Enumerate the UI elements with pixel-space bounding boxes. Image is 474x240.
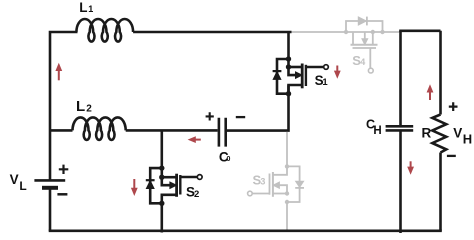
svg-text:V: V — [453, 125, 462, 140]
node S2 drain contact — [159, 175, 164, 180]
node S3 top — [285, 164, 289, 168]
voltage source VL battery — [34, 180, 65, 187]
S1 gate lead — [306, 66, 324, 69]
diode D3 symbol — [296, 181, 304, 187]
S2 drain contact — [162, 176, 177, 179]
gray section — [252, 21, 399, 231]
S4 gate lead — [369, 48, 371, 68]
diode D3 branch — [287, 166, 300, 202]
diode D4 symbol — [358, 17, 366, 25]
transistor S1 — [277, 32, 323, 94]
label C0 plus — [206, 112, 214, 120]
wire top right rail — [399, 29, 440, 32]
diode D1 symbol — [273, 56, 302, 96]
svg-text:3: 3 — [260, 177, 265, 187]
S1 body arrowhead — [296, 72, 303, 78]
S4 channel bar — [351, 44, 378, 46]
wire left rail top — [50, 32, 78, 180]
svg-text:4: 4 — [360, 57, 365, 67]
wire CH column bottom — [399, 130, 402, 233]
resistor R zigzag — [432, 115, 446, 153]
svg-text:2: 2 — [194, 189, 199, 200]
wire S1 drain from top rail — [287, 32, 290, 67]
wire S2 drain from L2 row — [161, 130, 164, 177]
svg-text:H: H — [463, 131, 472, 146]
svg-text:2: 2 — [86, 104, 92, 115]
wire L2 row — [50, 129, 73, 132]
S4 body arrowhead — [362, 39, 368, 45]
node S4 diode left — [344, 30, 348, 34]
wire R column bottom — [439, 153, 442, 231]
inductor L2 — [73, 117, 126, 140]
S3 gate circle — [248, 191, 253, 196]
svg-text:L: L — [76, 98, 85, 115]
S4 body arrow lead — [364, 32, 366, 42]
svg-text:L: L — [19, 179, 26, 193]
S2 body arrowhead — [170, 182, 177, 188]
S2 gate bar — [179, 175, 181, 195]
svg-text:0: 0 — [227, 156, 231, 163]
node S2 drain-diode — [159, 165, 164, 170]
diode D4 branch — [346, 21, 383, 32]
node S1 drain contact — [286, 64, 291, 69]
S4 source contact — [352, 32, 354, 45]
wire top rail to S1 — [133, 31, 291, 34]
capacitor C0 plates — [219, 118, 226, 147]
wire L2 to C0 left plate — [126, 129, 218, 132]
label C0 minus — [236, 116, 245, 118]
S4 drain contact — [372, 32, 374, 45]
wire left rail bottom — [49, 188, 52, 231]
svg-text:1: 1 — [88, 4, 93, 14]
node S4 drain — [371, 30, 375, 34]
S1 channel bar — [301, 64, 304, 89]
diode D2 branch — [150, 168, 162, 203]
arrow S1 down — [336, 66, 338, 72]
S2 body arrow lead — [162, 177, 173, 185]
VL short plate — [42, 186, 58, 190]
node S1 source-diode — [286, 91, 291, 96]
node S2 source-diode — [159, 201, 164, 206]
S3 channel bar — [272, 172, 274, 197]
S2 gate circle — [197, 175, 202, 180]
arrow CH down — [410, 161, 412, 167]
wire S2 source to bottom rail — [161, 203, 164, 232]
svg-text:H: H — [373, 125, 381, 137]
S2 gate lead — [180, 176, 197, 179]
diode D1 branch — [277, 59, 289, 94]
label VH plus — [449, 102, 458, 111]
S1 source lead — [289, 85, 303, 94]
transistor S2 — [150, 130, 197, 232]
svg-text:V: V — [10, 172, 19, 187]
S4 gate bar — [353, 47, 377, 49]
S2 channel bar — [175, 174, 178, 197]
svg-text:1: 1 — [322, 77, 328, 88]
S1 drain contact — [289, 66, 303, 69]
arrow R up — [429, 92, 431, 100]
node S1 drain-diode — [286, 56, 291, 61]
label VL plus — [59, 165, 69, 174]
label VL minus — [57, 193, 67, 196]
S1 gate bar — [305, 65, 307, 86]
arrow C0 left — [195, 139, 201, 141]
capacitor CH plates — [386, 126, 414, 130]
arrow iL1 up — [58, 70, 60, 80]
S2 source lead — [162, 195, 177, 204]
diode D2 symbol — [146, 165, 177, 206]
S3 body arrowhead — [273, 182, 279, 188]
arrow S2 down — [133, 179, 135, 188]
svg-text:R: R — [422, 126, 432, 141]
wire S4 row — [292, 31, 400, 33]
S3 gate bar — [269, 174, 271, 195]
right section black — [49, 31, 447, 233]
wire R column top — [439, 31, 442, 115]
node S3 drain contact — [285, 191, 289, 195]
S3 body arrow lead — [277, 185, 287, 193]
S4 gate circle — [368, 68, 373, 73]
wire bottom rail — [49, 230, 442, 233]
S1 gate circle — [324, 65, 329, 70]
S3 drain contact — [273, 193, 287, 195]
wire C0 right to S1 source column — [227, 85, 289, 130]
S3 source lead — [273, 166, 287, 174]
node S4 diode right — [380, 30, 384, 34]
wire CH column top — [399, 31, 402, 126]
label VH minus — [447, 155, 456, 157]
wire S3 column top — [286, 132, 288, 167]
red current arrows — [55, 63, 433, 196]
svg-text:L: L — [79, 0, 87, 15]
node S3 bottom — [285, 200, 289, 204]
S3 gate lead — [252, 193, 269, 195]
wire S3 to bottom rail — [286, 202, 288, 231]
S1 body arrow lead — [289, 67, 300, 75]
inductor L1 — [76, 19, 133, 42]
VL long plate — [34, 179, 65, 182]
